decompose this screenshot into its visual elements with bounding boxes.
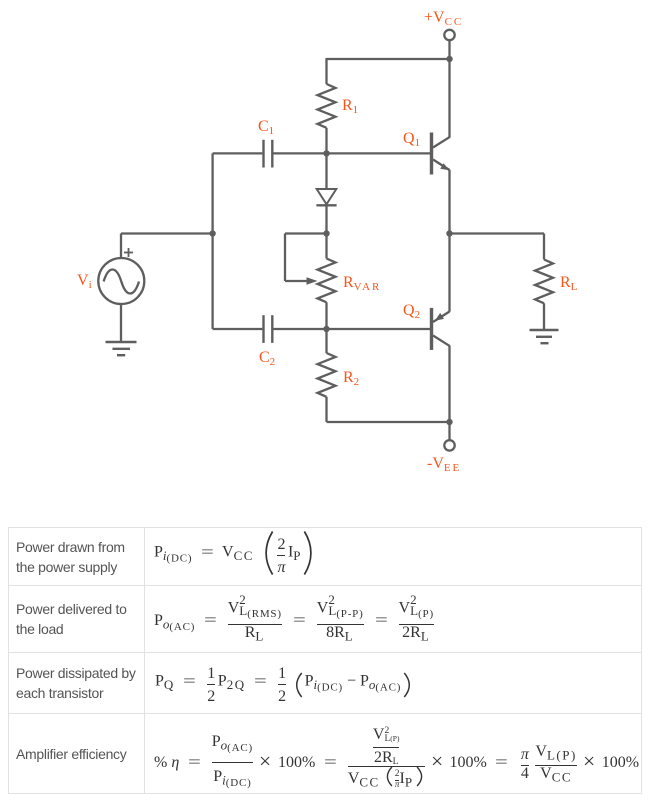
resistor R2: [318, 353, 336, 397]
junction source node: [209, 230, 215, 236]
wiper arrow into RVAR: [285, 277, 318, 285]
wire Q1 emitter to output node: [448, 170, 450, 234]
wire C2 to Q2 base: [273, 328, 430, 330]
wire Q1 collector to top node: [448, 59, 450, 137]
wire bottom node to VEE terminal: [448, 422, 450, 440]
junction Q1 base node: [323, 150, 329, 156]
wire top rail to R1 top: [325, 58, 327, 84]
wire top rail horizontal: [327, 58, 450, 60]
wire left rail vertical: [211, 153, 213, 329]
wire mid node to R2 top: [325, 329, 327, 353]
wire source to left rail: [121, 232, 213, 234]
svg-text:RVAR: RVAR: [343, 274, 381, 293]
wire bottom rail horizontal: [327, 421, 450, 423]
terminal -VEE: [444, 440, 454, 450]
wire Q2 collector to bottom node: [448, 346, 450, 422]
capacitor C2: [264, 315, 273, 343]
wire node to RVAR top: [325, 234, 327, 259]
wire output node to RL: [450, 232, 545, 234]
svg-text:Q2: Q2: [403, 302, 422, 321]
wire Q2 emitter to output node: [448, 234, 450, 312]
resistor RL: [535, 260, 553, 304]
resistor R1: [318, 84, 336, 128]
transistor Q1: [432, 133, 451, 175]
svg-text:+VCC: +VCC: [424, 9, 463, 28]
wire R1 bottom to base node: [325, 128, 327, 154]
svg-text:Q1: Q1: [403, 130, 422, 149]
potentiometer RVAR: [318, 259, 336, 303]
transistor Q2: [432, 308, 451, 350]
terminal +VCC: [444, 30, 454, 40]
wire wiper loop: down: [284, 234, 286, 282]
wire left rail to C1: [213, 152, 263, 154]
wire R2 bottom: [325, 397, 327, 422]
svg-text:-VEE: -VEE: [427, 455, 461, 474]
diode D1: [316, 153, 336, 233]
ground below RL: [530, 330, 559, 343]
svg-text:Vi: Vi: [77, 272, 94, 291]
ground below Vi: [106, 342, 137, 355]
wire wiper loop: node to left: [285, 232, 327, 234]
junction Q2 base node: [323, 326, 329, 332]
wire RVAR bottom to mid node: [325, 302, 327, 329]
junction top node: [446, 56, 452, 62]
svg-text:C2: C2: [259, 349, 277, 368]
svg-text:R2: R2: [343, 369, 361, 388]
wire RL bottom lead: [543, 303, 545, 330]
wire VCC terminal to top node: [448, 40, 450, 59]
capacitor C1: [264, 140, 273, 168]
junction diode-RVAR node: [323, 230, 329, 236]
wire source top lead: [120, 234, 122, 259]
polarity plus of Vi: [124, 248, 133, 257]
junction bottom node: [446, 419, 452, 425]
svg-text:C1: C1: [258, 118, 276, 137]
wire RL top lead: [543, 234, 545, 260]
junction output node: [446, 230, 452, 236]
svg-text:RL: RL: [560, 274, 579, 293]
wire C1 to Q1 base: [273, 152, 430, 154]
wire left rail to C2: [213, 328, 263, 330]
wire source bottom lead: [120, 304, 122, 342]
source Vi: [98, 258, 144, 304]
svg-text:R1: R1: [342, 97, 360, 116]
